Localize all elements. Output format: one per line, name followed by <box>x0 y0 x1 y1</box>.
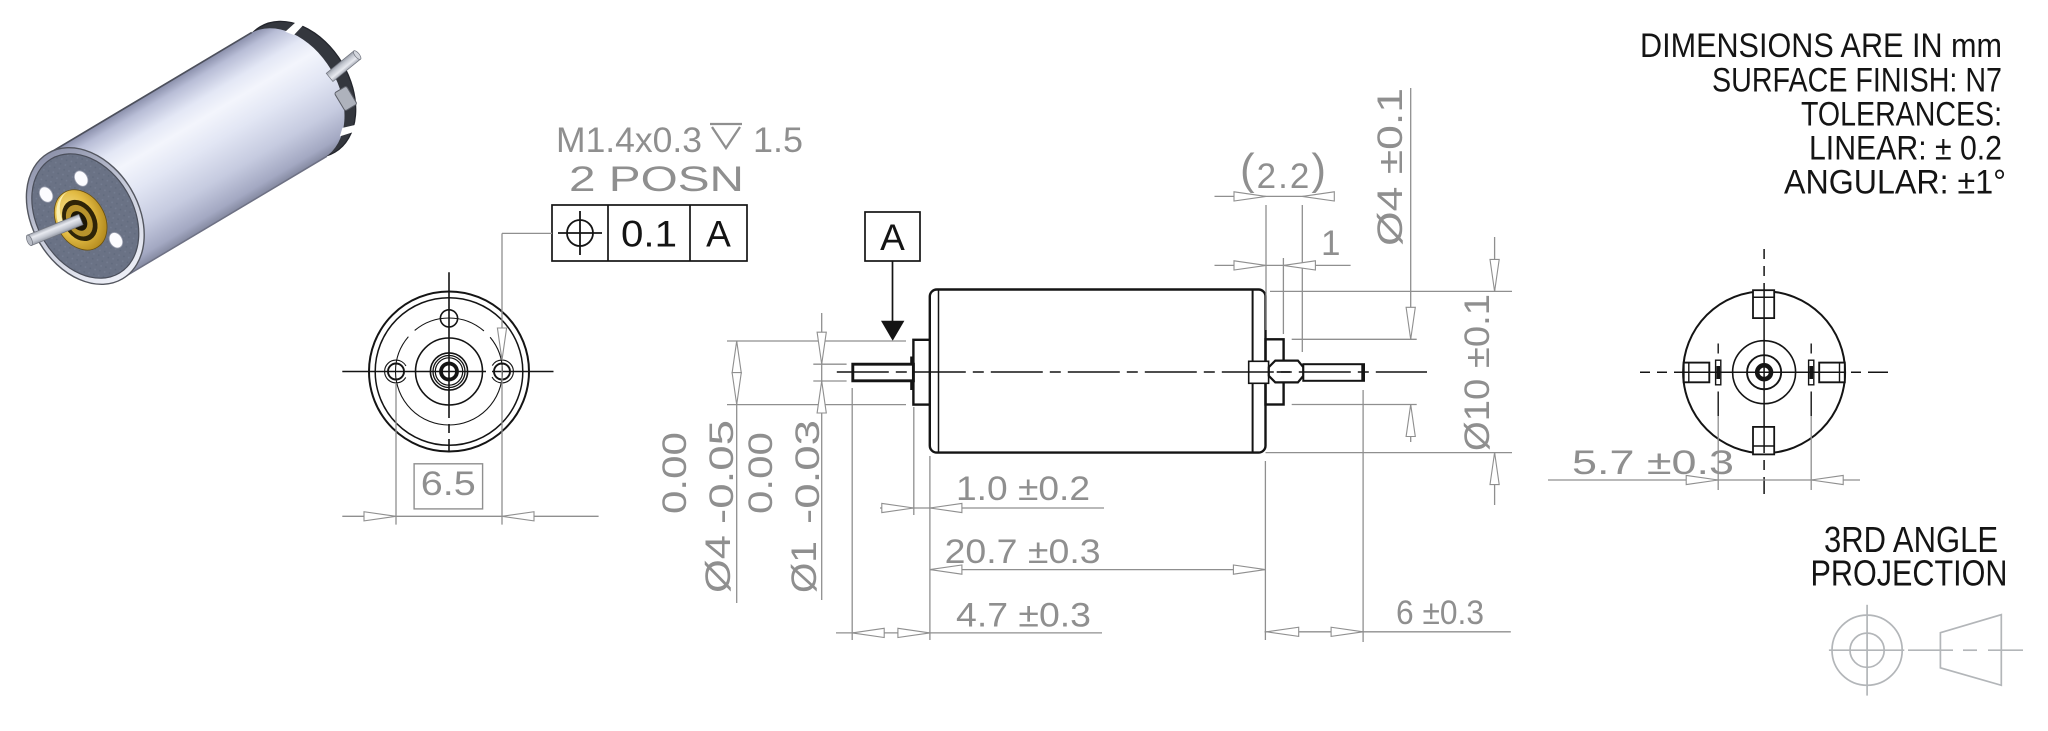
bolt circle 6.5 <box>396 318 503 425</box>
dim Ø4 ±0.1 rear boss <box>1292 338 1417 340</box>
projection symbol centerline <box>1908 649 1953 651</box>
svg-text:1.0 ±0.2: 1.0 ±0.2 <box>956 470 1090 508</box>
datum A filled triangle <box>881 321 904 341</box>
svg-text:A: A <box>706 214 731 255</box>
dim Ø4 0.00/-0.05 front boss <box>727 340 906 342</box>
svg-text:SURFACE FINISH: N7: SURFACE FINISH: N7 <box>1712 62 2002 100</box>
front view centerlines <box>342 371 486 373</box>
left slot <box>1716 360 1721 385</box>
center boss circles <box>416 338 483 405</box>
projection symbol circles <box>1832 615 1902 685</box>
svg-text:0.00: 0.00 <box>742 432 780 514</box>
top hole <box>440 310 457 327</box>
rear cap seam <box>1252 291 1254 453</box>
projection symbol cone <box>1940 615 2001 686</box>
svg-text:1.5: 1.5 <box>753 121 803 160</box>
svg-text:Ø4 ±0.1: Ø4 ±0.1 <box>1371 88 1410 246</box>
svg-text:Ø10 ±0.1: Ø10 ±0.1 <box>1458 294 1497 451</box>
dim 20.7 ±0.3 <box>930 569 1266 571</box>
left tab <box>1684 363 1710 383</box>
right slot <box>1809 360 1814 385</box>
rear bearing boss <box>1266 339 1284 404</box>
top tab <box>1753 290 1774 318</box>
svg-text:-0.05: -0.05 <box>703 420 741 524</box>
ext lines bottom <box>851 388 853 640</box>
rear bearing rect through cap <box>1249 361 1269 383</box>
dim Ø1 0.00/-0.03 front shaft <box>813 363 846 365</box>
svg-text:-0.03: -0.03 <box>789 420 827 524</box>
svg-text:4.7 ±0.3: 4.7 ±0.3 <box>956 597 1091 635</box>
left tapped hole M1.4 <box>388 364 404 380</box>
svg-text:0.00: 0.00 <box>656 432 694 514</box>
svg-text:ANGULAR: ±1°: ANGULAR: ±1° <box>1784 164 2006 202</box>
svg-text:Ø4: Ø4 <box>699 535 738 593</box>
dim 1 rear boss <box>1282 258 1284 334</box>
rear shaft bold ring <box>1757 365 1771 379</box>
svg-text:DIMENSIONS ARE IN mm: DIMENSIONS ARE IN mm <box>1640 27 2002 65</box>
svg-text:20.7 ±0.3: 20.7 ±0.3 <box>945 533 1101 571</box>
right tab <box>1819 363 1845 383</box>
dim 5.7 ±0.3 <box>1717 416 1719 490</box>
svg-text:2 POSN: 2 POSN <box>569 160 744 199</box>
front cap seam <box>938 291 940 453</box>
3D shaded isometric render of motor <box>2 0 379 306</box>
svg-text:PROJECTION: PROJECTION <box>1811 553 2008 594</box>
svg-text:TOLERANCES:: TOLERANCES: <box>1801 96 2002 134</box>
side view centerline <box>837 371 1427 373</box>
FCF leader to right hole <box>502 232 552 234</box>
feature control frame: position 0.1 A <box>552 205 747 261</box>
svg-text:6 ±0.3: 6 ±0.3 <box>1396 594 1484 632</box>
front view: motor face <box>369 292 529 452</box>
svg-text:Ø1: Ø1 <box>785 541 824 593</box>
dim 4.7 ±0.3 <box>836 632 1102 634</box>
dim 1.0 ±0.2 <box>880 507 1104 509</box>
dim (2.2) <box>1265 205 1267 330</box>
svg-text:1: 1 <box>1321 224 1340 263</box>
rear bearing circle <box>1747 355 1781 389</box>
front shaft <box>853 364 914 381</box>
svg-text:LINEAR: ± 0.2: LINEAR: ± 0.2 <box>1809 130 2002 168</box>
datum A flag <box>865 212 920 261</box>
svg-text:A: A <box>880 217 905 258</box>
front collar bar <box>910 357 914 391</box>
bottom tab <box>1753 427 1774 455</box>
svg-text:6.5: 6.5 <box>421 465 476 503</box>
rear view centerlines <box>1640 371 1888 373</box>
svg-text:M1.4x0.3: M1.4x0.3 <box>556 121 702 160</box>
svg-text:5.7 ±0.3: 5.7 ±0.3 <box>1572 444 1734 482</box>
svg-text:0.1: 0.1 <box>621 214 677 255</box>
right tapped hole M1.4 <box>494 364 510 380</box>
front bearing boss <box>913 340 929 405</box>
dim 6 ±0.3 <box>1265 631 1511 633</box>
rear view: end cap <box>1683 291 1845 453</box>
side view: motor body <box>930 290 1266 453</box>
dim 6.5 bolt circle <box>395 383 397 525</box>
rear shaft ball bulge <box>1269 361 1304 383</box>
shaft bold ring <box>441 364 457 380</box>
rear shaft <box>1303 364 1364 381</box>
dim Ø10 ±0.1 body <box>1270 290 1512 292</box>
